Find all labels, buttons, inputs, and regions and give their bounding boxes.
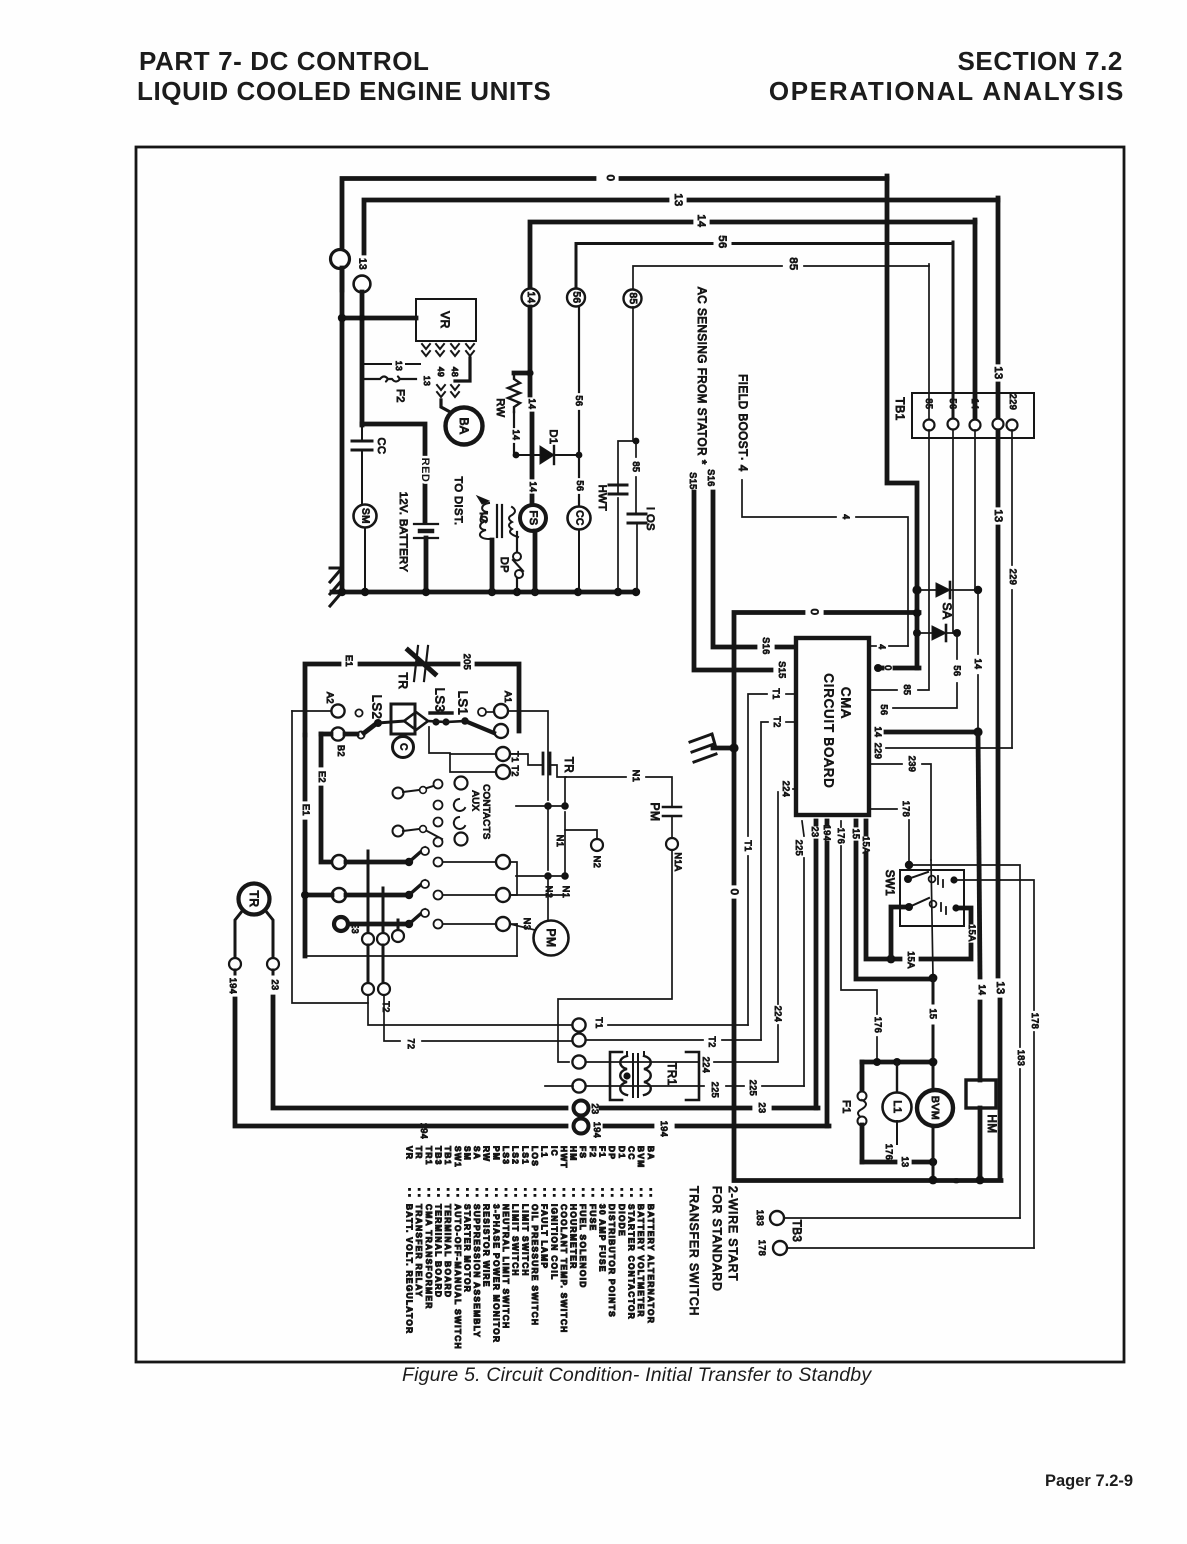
svg-text:AUTO-OFF-MANUAL SWITCH: AUTO-OFF-MANUAL SWITCH: [453, 1204, 463, 1350]
svg-text:2-WIRE START: 2-WIRE START: [726, 1186, 740, 1282]
svg-text:178: 178: [901, 801, 911, 818]
wire N mid vertical: [547, 806, 549, 870]
svg-text:PM: PM: [491, 1146, 501, 1161]
svg-text:14: 14: [527, 398, 537, 409]
svg-text:85: 85: [787, 257, 799, 270]
svg-text:S16: S16: [761, 637, 771, 655]
terminal 225 circle: [572, 1079, 585, 1092]
svg-text:SA: SA: [472, 1146, 482, 1160]
junction ground 0: [729, 743, 738, 752]
svg-text:56: 56: [952, 665, 962, 676]
wire 15A up to SW1: [891, 907, 906, 959]
svg-text:SUPPRESSION ASSEMBLY: SUPPRESSION ASSEMBLY: [472, 1204, 482, 1338]
svg-text:HM: HM: [985, 1115, 997, 1134]
svg-text:194: 194: [228, 978, 238, 995]
svg-text:D1: D1: [547, 429, 559, 444]
wire rail top meters: [862, 1060, 934, 1065]
svg-text:85: 85: [924, 398, 934, 409]
svg-text:224: 224: [773, 1006, 783, 1023]
wire 14 down right: [978, 732, 980, 977]
wire drop 3: [397, 920, 400, 930]
wire row1 to row2 right: [510, 862, 517, 895]
wire bottom bus top-section: [332, 590, 636, 595]
wire field boost 4: [742, 480, 836, 517]
coolant contactor CC circle: [568, 507, 591, 530]
TB1 terminal 14: [970, 420, 981, 431]
fuel solenoid FS: [520, 505, 546, 531]
svg-text:TERMINAL BOARD: TERMINAL BOARD: [433, 1204, 443, 1298]
svg-text:NEUTRAL LIMIT SWITCH: NEUTRAL LIMIT SWITCH: [501, 1204, 511, 1329]
wire A1 to N: [508, 711, 548, 800]
wire 178 pin: [871, 808, 897, 810]
svg-text:85: 85: [902, 684, 912, 695]
svg-text:CMA TRANSFORMER: CMA TRANSFORMER: [424, 1204, 434, 1310]
svg-text:194: 194: [592, 1122, 602, 1139]
svg-text:183: 183: [1016, 1050, 1026, 1067]
wire bus 13 right vertical: [996, 198, 1001, 362]
wire N1 horizontal: [516, 805, 565, 807]
svg-text:BATT. VOLT. REGULATOR: BATT. VOLT. REGULATOR: [405, 1204, 415, 1335]
svg-text:14: 14: [873, 726, 883, 737]
header right line 1: [957, 46, 1123, 77]
wire 194 pin: [825, 821, 830, 824]
battery 12V: [414, 523, 438, 525]
wire S16 stator: [713, 492, 755, 647]
svg-text:14: 14: [977, 984, 987, 995]
svg-text:SW1: SW1: [883, 870, 895, 896]
TB1 terminal 56: [948, 419, 959, 430]
svg-text:13: 13: [994, 981, 1006, 994]
junction D1 ends: [513, 452, 520, 459]
junction 14: [973, 727, 982, 736]
wire bus 14 to TB1: [973, 220, 978, 417]
wire 15 down to BVM: [932, 978, 935, 1003]
terminal circled 56: [567, 289, 585, 307]
terminal 194 left: [229, 958, 241, 970]
svg-text:14: 14: [973, 658, 983, 669]
svg-text:E1: E1: [344, 655, 354, 667]
fuse F2: [364, 377, 416, 382]
capacitor TR: [510, 754, 543, 765]
svg-text:13: 13: [672, 193, 684, 206]
relay contact row 2: [332, 888, 346, 902]
svg-text:30 AMP FUSE: 30 AMP FUSE: [598, 1204, 608, 1273]
wire 13-circle vertical: [360, 292, 365, 425]
svg-text:VR: VR: [405, 1146, 415, 1160]
svg-text:225: 225: [748, 1080, 758, 1097]
transfer relay TR circle: [239, 884, 270, 915]
VR output chevrons: [422, 344, 430, 356]
svg-text:13: 13: [900, 1156, 910, 1167]
junction dots bottom bus: [338, 588, 346, 596]
wire 15 pin: [854, 821, 859, 825]
SW1 upper pole: [904, 875, 912, 883]
terminal 23 left: [267, 958, 279, 970]
svg-text:15A: 15A: [967, 924, 977, 942]
svg-text:RW: RW: [494, 398, 506, 417]
svg-text:224: 224: [781, 781, 791, 798]
small circle by A1: [478, 708, 486, 716]
relay contact row 1: [332, 855, 346, 869]
svg-text:176: 176: [884, 1144, 894, 1161]
wire 23 bottom run: [601, 1106, 750, 1111]
junction at VR feed: [338, 314, 346, 322]
svg-text:T1: T1: [594, 1017, 604, 1029]
wire IC primary down: [490, 540, 495, 593]
svg-text:TR1: TR1: [665, 1062, 677, 1085]
svg-text:229: 229: [873, 743, 883, 760]
wire 14 thick to CMA: [886, 730, 978, 735]
svg-text:BATTERY VOLTMETER: BATTERY VOLTMETER: [636, 1204, 646, 1318]
svg-text:FUSE: FUSE: [588, 1204, 598, 1232]
wire E1 left vertical: [303, 735, 308, 799]
svg-text:56: 56: [948, 398, 958, 409]
wire row2 to N net: [510, 894, 565, 896]
wire 13 tap to chevron: [362, 363, 391, 365]
svg-text:BATTERY ALTERNATOR: BATTERY ALTERNATOR: [646, 1204, 656, 1324]
svg-text:225: 225: [710, 1082, 720, 1099]
wire CC to bus: [578, 530, 580, 593]
svg-text:LS3: LS3: [433, 688, 448, 713]
svg-text:14: 14: [511, 429, 521, 440]
figure caption: [402, 1364, 871, 1387]
wire E1 top loop: [305, 664, 339, 735]
svg-text:COOLANT TEMP. SWITCH: COOLANT TEMP. SWITCH: [559, 1204, 569, 1334]
svg-text:56: 56: [716, 235, 728, 248]
svg-text:LIMIT SWITCH: LIMIT SWITCH: [511, 1204, 521, 1277]
wire bus 56 top: [576, 244, 712, 289]
svg-text:FAULT LAMP: FAULT LAMP: [540, 1204, 550, 1269]
wire SW1 pole1 to 183: [954, 879, 1000, 881]
svg-text:L1: L1: [540, 1146, 550, 1158]
svg-text:225: 225: [794, 840, 804, 857]
svg-text:S15: S15: [688, 472, 698, 490]
wire T2 pin: [786, 721, 796, 723]
CMA pin 0 wire: [878, 666, 882, 671]
junction 15A: [887, 955, 896, 964]
coolant temp switch HWT: [618, 441, 634, 494]
SW1 lower pole: [905, 903, 913, 911]
wire relay bottom bus: [305, 955, 517, 957]
wire S15 stator: [694, 492, 771, 670]
svg-text:178: 178: [757, 1240, 767, 1257]
svg-text:TB3: TB3: [790, 1220, 802, 1243]
svg-text:3-PHASE POWER MONITOR: 3-PHASE POWER MONITOR: [491, 1204, 501, 1343]
wire N1A down: [558, 850, 672, 1062]
terminal T2 bottom: [572, 1033, 585, 1046]
wire 56 vertical mid: [578, 307, 580, 392]
wire bus 13 top: [364, 200, 667, 253]
svg-text:DP: DP: [607, 1146, 617, 1160]
svg-text:AC SENSING FROM STATOR *: AC SENSING FROM STATOR *: [695, 287, 707, 465]
wire left main vertical: [340, 268, 345, 593]
svg-text:T2: T2: [772, 716, 782, 728]
svg-text:T1 T2: T1 T2: [510, 751, 520, 777]
wire A1 stub: [487, 711, 494, 713]
svg-text:RESISTOR WIRE: RESISTOR WIRE: [482, 1204, 492, 1288]
CMA pin 4 wire: [871, 645, 876, 647]
switch SW1 box: [900, 870, 964, 926]
svg-text:4: 4: [841, 514, 851, 520]
svg-text:TR: TR: [562, 757, 574, 773]
coil FS small: [509, 507, 518, 537]
wire N1 up right: [565, 777, 626, 806]
wire 183 from SW1: [909, 865, 1020, 1047]
transfer relay TR switch: [408, 650, 435, 674]
wire bus 14 top: [530, 222, 691, 290]
svg-text:C: C: [398, 743, 409, 751]
svg-text:14: 14: [695, 214, 707, 227]
svg-text:L1: L1: [891, 1100, 903, 1113]
svg-text:STARTER MOTOR: STARTER MOTOR: [462, 1204, 472, 1293]
relay contact row 3: [334, 917, 348, 931]
svg-text:DIODE: DIODE: [617, 1204, 627, 1237]
capacitor PM sensing: [663, 806, 681, 809]
svg-text:205: 205: [462, 654, 472, 671]
svg-text:N1: N1: [631, 770, 641, 783]
ground symbol left: [330, 568, 342, 606]
fuse F1: [860, 1062, 865, 1092]
svg-text:T1: T1: [771, 688, 781, 700]
svg-text:E1: E1: [301, 804, 311, 816]
svg-text:49: 49: [436, 367, 446, 377]
capacitor CC plates: [352, 440, 372, 443]
power monitor PM: [534, 921, 569, 956]
svg-text:IGNITION COIL: IGNITION COIL: [549, 1204, 559, 1281]
svg-text:194: 194: [659, 1121, 669, 1138]
svg-text:183: 183: [755, 1210, 765, 1227]
terminal A1 upper: [494, 704, 508, 718]
wire 13 bottom rail: [862, 1160, 895, 1165]
svg-text:FUEL SOLENOID: FUEL SOLENOID: [578, 1204, 588, 1289]
TB1 terminal 13: [993, 419, 1004, 430]
svg-text:TRANSFER RELAY: TRANSFER RELAY: [414, 1204, 424, 1298]
terminal circle 13 lower: [354, 276, 371, 293]
svg-text:E3: E3: [350, 922, 360, 934]
wire 229 below TB1: [1011, 430, 1013, 565]
svg-text:BA: BA: [646, 1146, 656, 1161]
svg-text:0: 0: [728, 889, 740, 896]
TB1 terminal 229: [1007, 420, 1018, 431]
svg-text:B2: B2: [336, 745, 346, 757]
svg-text:13: 13: [394, 361, 404, 371]
svg-text:229: 229: [1008, 394, 1018, 411]
wire drop 1: [367, 851, 370, 933]
terminal board TB3 circle 178: [773, 1241, 787, 1255]
TB1 terminal 85: [924, 420, 935, 431]
wire 224 row: [586, 1061, 698, 1063]
terminal 224 circle: [572, 1055, 585, 1068]
aux contacts pair hooks: [434, 801, 443, 810]
svg-text:FIELD BOOST· 4: FIELD BOOST· 4: [736, 374, 748, 472]
svg-text:SM: SM: [360, 508, 371, 524]
wire RW down: [513, 412, 515, 427]
junction 178 SW1: [905, 861, 913, 869]
svg-text:N1: N1: [555, 835, 565, 848]
terminal circled 85: [624, 290, 642, 308]
wire 85 vertical mid: [632, 307, 634, 441]
svg-text:0: 0: [808, 609, 820, 616]
svg-text:HWT: HWT: [596, 485, 608, 512]
suppression assembly SA diode 1: [917, 589, 978, 591]
svg-text:STARTER CONTACTOR: STARTER CONTACTOR: [626, 1204, 636, 1320]
wire TR leads: [235, 910, 243, 958]
battery voltmeter BVM: [917, 1090, 953, 1126]
svg-text:85: 85: [631, 461, 641, 472]
svg-text:56: 56: [879, 704, 889, 715]
svg-text:A2: A2: [325, 692, 335, 704]
LS1 contact bar: [461, 717, 469, 725]
svg-text:DP: DP: [498, 557, 510, 573]
header right line 2: [769, 76, 1125, 107]
fault lamp L1: [896, 1062, 898, 1092]
wire B2 chain: [321, 732, 331, 737]
svg-text:FS: FS: [527, 510, 539, 525]
svg-text:D1: D1: [617, 1146, 627, 1159]
diode D1: [516, 454, 579, 456]
svg-text:BVM: BVM: [636, 1146, 646, 1169]
wire 176 pin: [840, 821, 842, 827]
svg-text:IC: IC: [549, 1146, 559, 1157]
wire 15A pin: [864, 821, 869, 834]
svg-text:LS1: LS1: [520, 1146, 530, 1165]
svg-text:AUX: AUX: [470, 790, 481, 811]
junction 15 down: [929, 974, 938, 983]
wire 194 left run: [234, 970, 237, 974]
svg-text:23: 23: [757, 1102, 767, 1113]
terminal circle 13 upper-left: [331, 250, 350, 269]
resistor RW: [514, 371, 530, 376]
header left line 1: [139, 46, 430, 77]
svg-text:194: 194: [822, 825, 832, 842]
wire 23 pin: [814, 821, 819, 824]
terminal lug 23: [574, 1101, 589, 1116]
svg-text:HOURMETER: HOURMETER: [569, 1204, 579, 1270]
CMA pin 0 dot: [874, 664, 882, 672]
junction HM bus: [976, 1176, 985, 1185]
wire 23 left run: [272, 970, 275, 974]
svg-text:CONTACTS: CONTACTS: [481, 784, 492, 840]
CMA circuit board U1: [796, 638, 869, 815]
terminal N2: [591, 839, 603, 851]
svg-text:N2: N2: [592, 856, 602, 869]
svg-text:15: 15: [851, 828, 861, 839]
wire A2 left: [292, 710, 331, 712]
svg-text:FS: FS: [578, 1146, 588, 1159]
wire T1 bottom right: [608, 1024, 748, 1026]
junction 0 bus BVM: [929, 1176, 938, 1185]
terminal board TB1: [912, 393, 1034, 438]
hourmeter HM: [966, 1080, 996, 1108]
svg-text:239: 239: [907, 756, 917, 773]
wire 85 TB1 to CMA: [918, 430, 929, 690]
svg-text:TR: TR: [396, 673, 410, 690]
wire bus 0 horizontal mid: [826, 610, 919, 615]
ground symbol mid: [690, 734, 716, 762]
wire 14 below TB1: [974, 430, 976, 590]
svg-text:229: 229: [1008, 569, 1018, 586]
svg-text:72: 72: [406, 1038, 416, 1049]
svg-text:15A: 15A: [861, 836, 871, 854]
svg-text:0: 0: [951, 1178, 961, 1184]
svg-text:LS3: LS3: [501, 1146, 511, 1165]
svg-text:15A: 15A: [906, 951, 916, 969]
svg-text:TB1: TB1: [443, 1146, 453, 1166]
wire to VR box: [342, 316, 416, 321]
svg-text:15: 15: [928, 1008, 938, 1019]
svg-text:RW: RW: [482, 1146, 492, 1162]
contactor C circle: [393, 737, 414, 758]
svg-text:VR: VR: [438, 311, 452, 329]
LS3 contacts: [432, 718, 439, 725]
svg-text:4: 4: [877, 644, 887, 650]
svg-text:S15: S15: [777, 661, 787, 679]
svg-text:0: 0: [883, 665, 893, 671]
terminal circled 14: [522, 289, 540, 307]
svg-text:48: 48: [450, 367, 460, 377]
svg-text:23: 23: [810, 826, 820, 837]
wire T2 bottom right: [586, 1039, 703, 1041]
junction 0 tee: [913, 609, 921, 617]
svg-text:56: 56: [574, 395, 584, 406]
svg-text:F2: F2: [394, 389, 406, 403]
svg-text:0: 0: [604, 175, 616, 182]
wire 239 pin: [871, 763, 902, 765]
svg-text:PM: PM: [544, 929, 558, 948]
wire bus 0 top: [342, 179, 594, 291]
svg-text:HM: HM: [569, 1146, 579, 1162]
svg-text:13: 13: [357, 258, 368, 270]
svg-text:DISTRIBUTOR POINTS: DISTRIBUTOR POINTS: [607, 1204, 617, 1318]
svg-text:TR: TR: [247, 891, 261, 908]
svg-text:FOR STANDARD: FOR STANDARD: [710, 1186, 724, 1292]
starter motor SM: [354, 505, 377, 528]
wire N2 link: [565, 830, 597, 839]
wire SM to bus: [364, 528, 366, 593]
svg-text:12V. BATTERY: 12V. BATTERY: [397, 492, 409, 573]
wire 178 right: [1000, 880, 1034, 1010]
svg-text:13: 13: [992, 366, 1004, 379]
oil pressure switch IOS capacitor: [628, 513, 646, 516]
distributor points DP: [513, 553, 521, 561]
terminal board TB3 circle 183: [770, 1211, 784, 1225]
terminal N1A: [666, 838, 678, 850]
contactor C box: [391, 704, 415, 734]
svg-text:T2: T2: [707, 1036, 717, 1048]
terminal T1 bottom: [572, 1018, 585, 1031]
svg-text:13: 13: [422, 376, 432, 386]
svg-text:CMA: CMA: [839, 687, 854, 719]
svg-text:SW1: SW1: [453, 1146, 463, 1168]
wire chevron to BA: [455, 358, 470, 381]
wire 194 bottom run: [605, 1124, 652, 1129]
junction rail dots: [873, 1058, 881, 1066]
svg-text:TRANSFER SWITCH: TRANSFER SWITCH: [687, 1186, 701, 1316]
wire TB3 178: [787, 1247, 1034, 1249]
svg-text:OIL PRESSURE SWITCH: OIL PRESSURE SWITCH: [530, 1204, 540, 1326]
svg-text:F1: F1: [840, 1100, 852, 1114]
svg-text:N1: N1: [561, 886, 571, 899]
svg-text:SM: SM: [462, 1146, 472, 1161]
wire row3 to PM: [510, 924, 535, 930]
junction N dots1: [544, 802, 552, 810]
svg-text:RED: RED: [419, 458, 431, 483]
svg-text:IC: IC: [477, 512, 489, 524]
wire L1 bottom 176: [896, 1121, 898, 1144]
SA diode 2: [918, 632, 957, 634]
svg-text:TB1: TB1: [893, 397, 907, 421]
svg-text:23: 23: [270, 979, 280, 990]
